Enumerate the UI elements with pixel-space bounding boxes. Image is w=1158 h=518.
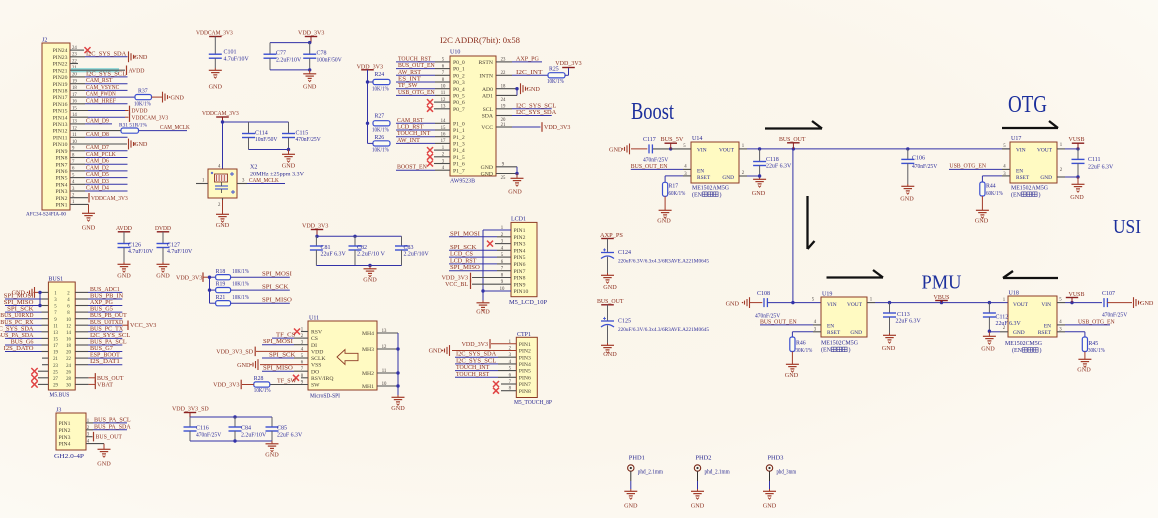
svg-text:GND: GND <box>752 190 766 197</box>
svg-text:CAM_D4: CAM_D4 <box>86 185 110 192</box>
svg-text:(EN: (EN <box>692 192 703 199</box>
svg-text:C111: C111 <box>1088 157 1101 163</box>
svg-text:C106: C106 <box>912 156 925 162</box>
svg-text:PIN23: PIN23 <box>53 55 68 61</box>
svg-text:4.7uF/10V: 4.7uF/10V <box>224 57 250 63</box>
svg-text:C127: C127 <box>167 242 180 248</box>
svg-text:26: 26 <box>66 370 71 375</box>
svg-text:GND: GND <box>1140 300 1154 307</box>
svg-text:2.2uF/10 V: 2.2uF/10 V <box>357 252 386 258</box>
svg-text:PIN9: PIN9 <box>55 149 67 155</box>
svg-text:C85: C85 <box>277 426 287 432</box>
svg-text:GND: GND <box>726 301 740 308</box>
svg-text:GND: GND <box>785 372 799 379</box>
svg-text:DO: DO <box>311 369 319 375</box>
svg-text:AD1: AD1 <box>482 94 493 100</box>
svg-text:10K/1%: 10K/1% <box>254 388 271 394</box>
svg-text:C84: C84 <box>241 426 251 432</box>
svg-text:USB_OTG_EN: USB_OTG_EN <box>949 163 986 170</box>
svg-text:RSET: RSET <box>1016 175 1030 181</box>
svg-text:20: 20 <box>66 351 71 356</box>
svg-text:EN: EN <box>697 168 704 174</box>
svg-text:PIN9: PIN9 <box>514 282 526 288</box>
svg-text:PHD1: PHD1 <box>629 456 645 462</box>
svg-text:SPI_MOSI: SPI_MOSI <box>262 271 292 278</box>
svg-text:GND: GND <box>117 273 131 280</box>
svg-text:PIN4: PIN4 <box>55 182 67 188</box>
svg-text:C78: C78 <box>317 50 327 56</box>
svg-text:27: 27 <box>53 377 58 382</box>
svg-text:PIN3: PIN3 <box>59 435 71 441</box>
svg-text:VDD_3V3: VDD_3V3 <box>462 341 488 348</box>
svg-text:I2C_SYS_SDA: I2C_SYS_SDA <box>86 50 127 57</box>
svg-text:I2S_DATO: I2S_DATO <box>4 345 34 352</box>
svg-text:25: 25 <box>501 176 506 181</box>
svg-text:GND: GND <box>975 218 989 225</box>
svg-text:60K/1%: 60K/1% <box>986 191 1003 197</box>
svg-text:VDDCAM_3V3: VDDCAM_3V3 <box>91 195 128 202</box>
svg-text:DVDD: DVDD <box>155 225 171 232</box>
svg-text:C115: C115 <box>296 131 309 137</box>
svg-text:MH2: MH2 <box>362 371 374 377</box>
svg-text:phd_3mm: phd_3mm <box>777 470 797 476</box>
svg-text:GND: GND <box>609 146 623 153</box>
svg-text:GND: GND <box>1077 367 1091 374</box>
svg-text:R26: R26 <box>375 135 385 141</box>
svg-text:470nF/25V: 470nF/25V <box>912 164 938 170</box>
svg-text:PIN7: PIN7 <box>514 269 526 275</box>
svg-text:BUS_OUT_EN: BUS_OUT_EN <box>760 318 797 325</box>
svg-text:Boost: Boost <box>631 99 674 125</box>
svg-text:U14: U14 <box>692 136 702 142</box>
svg-text:): ) <box>1040 347 1042 354</box>
svg-text:2.2uF/10V: 2.2uF/10V <box>404 252 430 258</box>
svg-text:PIN19: PIN19 <box>53 82 68 88</box>
svg-text:PIN5: PIN5 <box>55 176 67 182</box>
svg-text:2.2uF/10V: 2.2uF/10V <box>241 432 267 438</box>
svg-text:PIN24: PIN24 <box>53 48 68 54</box>
svg-text:10K/1%: 10K/1% <box>232 295 249 301</box>
svg-text:X2: X2 <box>250 164 257 170</box>
svg-text:BUS_5V: BUS_5V <box>661 136 684 143</box>
svg-text:GND: GND <box>508 189 522 196</box>
svg-text:GND: GND <box>265 452 279 459</box>
svg-text:SPI_MISO: SPI_MISO <box>262 297 292 304</box>
svg-text:GND: GND <box>1040 175 1052 181</box>
svg-text:VIN: VIN <box>1041 302 1051 308</box>
svg-text:VDDCAM_3V3: VDDCAM_3V3 <box>132 114 169 121</box>
svg-text:R45: R45 <box>1089 341 1099 347</box>
svg-text:22uF 6.3V: 22uF 6.3V <box>766 164 792 170</box>
svg-text:VIN: VIN <box>827 302 837 308</box>
svg-text:21: 21 <box>53 357 58 362</box>
svg-text:GND: GND <box>763 503 777 510</box>
svg-text:C117: C117 <box>643 137 656 143</box>
svg-text:EN: EN <box>827 323 834 329</box>
svg-text:AW9523B: AW9523B <box>450 179 475 185</box>
svg-text:VDD: VDD <box>311 350 323 356</box>
svg-text:R21: R21 <box>216 295 226 301</box>
svg-text:GND: GND <box>476 309 490 316</box>
svg-text:R19: R19 <box>216 282 226 288</box>
svg-text:M5_TOUCH_8P: M5_TOUCH_8P <box>514 400 552 406</box>
svg-text:): ) <box>720 192 722 199</box>
svg-text:I2S_DAT1: I2S_DAT1 <box>90 358 120 365</box>
svg-text:PMU: PMU <box>922 272 963 294</box>
svg-text:BOOST_EN: BOOST_EN <box>397 164 427 171</box>
svg-text:RSTN: RSTN <box>478 60 493 66</box>
svg-text:P1_5: P1_5 <box>453 155 465 161</box>
svg-text:PIN2: PIN2 <box>514 235 526 241</box>
svg-text:TF_SW: TF_SW <box>277 377 296 384</box>
svg-text:PIN11: PIN11 <box>53 135 68 141</box>
svg-text:GND: GND <box>624 503 638 510</box>
svg-text:GND: GND <box>429 348 443 355</box>
svg-text:GND: GND <box>82 225 96 232</box>
svg-text:PIN1: PIN1 <box>55 203 67 209</box>
svg-text:BUS_OUT: BUS_OUT <box>96 434 123 441</box>
svg-text:(EN: (EN <box>821 347 832 354</box>
svg-text:GND: GND <box>363 277 377 284</box>
svg-text:C124: C124 <box>618 250 631 256</box>
svg-text:phd_2.1mm: phd_2.1mm <box>705 470 730 476</box>
svg-text:2.2uF/10V: 2.2uF/10V <box>276 57 302 63</box>
svg-text:PIN4: PIN4 <box>59 442 71 448</box>
svg-text:PIN13: PIN13 <box>53 122 68 128</box>
svg-text:ME1502AM5G: ME1502AM5G <box>692 186 730 192</box>
svg-text:GND: GND <box>481 172 493 178</box>
svg-text:P0_3: P0_3 <box>453 80 465 86</box>
svg-text:C114: C114 <box>255 131 268 137</box>
svg-text:PIN18: PIN18 <box>53 89 68 95</box>
svg-text:PIN2: PIN2 <box>59 428 71 434</box>
svg-text:GND: GND <box>216 222 230 229</box>
svg-text:21: 21 <box>501 123 506 128</box>
svg-text:GND: GND <box>237 362 251 369</box>
svg-text:PIN12: PIN12 <box>53 129 68 135</box>
svg-text:GND: GND <box>156 273 170 280</box>
svg-text:16: 16 <box>66 338 71 343</box>
svg-text:R25: R25 <box>549 67 559 73</box>
svg-text:VDD_3V3: VDD_3V3 <box>176 274 202 281</box>
svg-text:PIN8: PIN8 <box>55 156 67 162</box>
svg-text:PIN1: PIN1 <box>514 228 526 234</box>
svg-text:EN: EN <box>1016 168 1023 174</box>
svg-text:AD0: AD0 <box>482 87 493 93</box>
svg-text:PIN6: PIN6 <box>55 169 67 175</box>
svg-text:GND: GND <box>171 94 185 101</box>
svg-text:GND: GND <box>1013 330 1025 336</box>
svg-text:P1_6: P1_6 <box>453 162 465 168</box>
svg-text:GND: GND <box>882 345 896 352</box>
svg-text:GH2.0-4P: GH2.0-4P <box>54 454 84 460</box>
svg-text:17: 17 <box>53 344 58 349</box>
svg-text:GND: GND <box>527 86 541 93</box>
svg-text:GND: GND <box>603 284 617 291</box>
svg-text:PIN1: PIN1 <box>519 342 531 348</box>
svg-text:14: 14 <box>66 331 71 336</box>
svg-text:23: 23 <box>53 364 58 369</box>
svg-text:(EN: (EN <box>1012 347 1023 354</box>
svg-text:M5.BUS: M5.BUS <box>49 393 69 399</box>
svg-text:GND: GND <box>209 84 223 91</box>
svg-text:10nF/50V: 10nF/50V <box>255 137 278 143</box>
svg-text:4.7uF/10V: 4.7uF/10V <box>128 249 154 255</box>
svg-text:22uF 6.3V: 22uF 6.3V <box>896 318 922 324</box>
svg-text:PIN6: PIN6 <box>514 262 526 268</box>
svg-text:RSV: RSV <box>311 330 323 336</box>
svg-text:P1_0: P1_0 <box>453 121 465 127</box>
svg-text:PIN10: PIN10 <box>53 142 68 148</box>
svg-text:C77: C77 <box>276 50 286 56</box>
svg-text:220uF/6.3V/6.3x4.3/6R3AVE.A221: 220uF/6.3V/6.3x4.3/6R3AVE.A221M0645 <box>618 259 709 265</box>
svg-text:INTN: INTN <box>479 73 493 79</box>
svg-text:C81: C81 <box>321 245 331 251</box>
svg-text:GND: GND <box>722 175 734 181</box>
svg-text:VOUT: VOUT <box>1013 302 1029 308</box>
svg-text:P0_7: P0_7 <box>453 107 465 113</box>
svg-text:30K/1%: 30K/1% <box>796 348 813 354</box>
svg-text:GND: GND <box>481 165 493 171</box>
svg-text:VOUT: VOUT <box>719 147 735 153</box>
svg-text:PIN3: PIN3 <box>514 242 526 248</box>
svg-text:30: 30 <box>66 384 71 389</box>
svg-text:C112: C112 <box>996 315 1009 321</box>
svg-text:GND: GND <box>691 503 705 510</box>
svg-text:SPI_MISO: SPI_MISO <box>263 365 293 372</box>
svg-text:GND: GND <box>981 346 995 353</box>
svg-text:PHD3: PHD3 <box>768 456 784 462</box>
svg-text:C107: C107 <box>1102 291 1115 297</box>
svg-text:MH4: MH4 <box>362 331 374 337</box>
svg-text:CAM_MCLK: CAM_MCLK <box>249 177 279 184</box>
svg-text:SPI_SCK: SPI_SCK <box>269 352 296 359</box>
svg-text:15: 15 <box>53 338 58 343</box>
svg-text:CAM_D9: CAM_D9 <box>86 117 109 124</box>
svg-text:BUS_PA_SDA: BUS_PA_SDA <box>94 423 131 430</box>
svg-text:GND: GND <box>603 351 617 358</box>
svg-text:30K/1%: 30K/1% <box>1088 348 1105 354</box>
svg-text:SCLK: SCLK <box>311 356 326 362</box>
svg-text:PIN7: PIN7 <box>519 382 531 388</box>
svg-text:BUS_OUT: BUS_OUT <box>779 136 806 143</box>
svg-text:11: 11 <box>53 324 58 329</box>
svg-text:VDD_3V3_SD: VDD_3V3_SD <box>172 406 209 413</box>
svg-text:PIN5: PIN5 <box>514 255 526 261</box>
svg-text:29: 29 <box>53 384 58 389</box>
svg-text:AXP_PG: AXP_PG <box>516 55 539 62</box>
svg-text:VUSB: VUSB <box>1069 136 1085 143</box>
svg-text:J2: J2 <box>42 38 47 44</box>
svg-text:AW_INT: AW_INT <box>397 137 420 144</box>
svg-text:VDD_3V3: VDD_3V3 <box>302 223 328 230</box>
svg-text:10K/1%: 10K/1% <box>372 86 389 92</box>
svg-text:BUS_OUT: BUS_OUT <box>597 298 624 305</box>
svg-text:GND: GND <box>97 461 111 468</box>
svg-text:GND: GND <box>134 54 148 61</box>
svg-text:): ) <box>849 347 851 354</box>
svg-text:PIN8: PIN8 <box>514 276 526 282</box>
svg-text:VDD_3V3: VDD_3V3 <box>544 124 570 131</box>
svg-text:GND: GND <box>657 218 671 225</box>
svg-text:MicroSD-SPI: MicroSD-SPI <box>310 394 340 400</box>
svg-text:OTG: OTG <box>1008 92 1047 118</box>
svg-text:GND: GND <box>1070 194 1084 201</box>
svg-text:P0_6: P0_6 <box>453 100 465 106</box>
svg-text:C101: C101 <box>224 50 237 56</box>
svg-text:24: 24 <box>66 364 71 369</box>
svg-text:I2C_SYS_SDA: I2C_SYS_SDA <box>516 109 557 116</box>
svg-text:AVDD: AVDD <box>129 67 145 74</box>
svg-text:U18: U18 <box>1009 291 1019 297</box>
svg-text:13: 13 <box>53 331 58 336</box>
svg-text:19: 19 <box>501 105 506 110</box>
svg-text:SPI_MISO: SPI_MISO <box>450 264 480 271</box>
svg-text:P0_2: P0_2 <box>453 73 465 79</box>
svg-text:GND: GND <box>282 163 296 170</box>
svg-text:PIN5: PIN5 <box>519 369 531 375</box>
svg-text:PIN3: PIN3 <box>519 355 531 361</box>
svg-text:C113: C113 <box>897 312 910 318</box>
svg-text:VBAT: VBAT <box>97 381 113 388</box>
svg-text:TOUCH_RST: TOUCH_RST <box>456 371 489 378</box>
svg-text:VDD_3V3: VDD_3V3 <box>298 30 324 37</box>
svg-text:PIN8: PIN8 <box>519 389 531 395</box>
svg-text:AFC34-S24FIA-00: AFC34-S24FIA-00 <box>26 212 66 218</box>
svg-text:USI: USI <box>1113 216 1141 238</box>
svg-text:GND: GND <box>303 84 317 91</box>
svg-text:CAM_HREF: CAM_HREF <box>86 97 116 104</box>
svg-text:AVDD: AVDD <box>116 225 132 232</box>
svg-text:VDD_3V3_SD: VDD_3V3_SD <box>216 348 253 355</box>
svg-text:SPI_MOSI: SPI_MOSI <box>450 230 480 237</box>
svg-text:C125: C125 <box>618 319 631 325</box>
svg-text:U17: U17 <box>1011 136 1021 142</box>
svg-text:RSET: RSET <box>827 330 841 336</box>
svg-text:ME1502CM5G: ME1502CM5G <box>821 341 859 347</box>
svg-text:P0_5: P0_5 <box>453 94 465 100</box>
svg-text:BUS_OUT_EN: BUS_OUT_EN <box>631 163 668 170</box>
svg-text:U19: U19 <box>822 292 832 298</box>
svg-text:phd_2.1mm: phd_2.1mm <box>638 470 663 476</box>
svg-text:PIN17: PIN17 <box>53 95 68 101</box>
svg-text:SDA: SDA <box>482 114 494 120</box>
svg-text:MH3: MH3 <box>362 347 374 353</box>
svg-text:10: 10 <box>66 318 71 323</box>
svg-text:VCC_BL: VCC_BL <box>445 281 468 288</box>
svg-text:GND: GND <box>134 141 148 148</box>
svg-text:SW: SW <box>311 383 320 389</box>
svg-text:GND: GND <box>900 196 914 203</box>
svg-text:23: 23 <box>501 58 506 63</box>
svg-text:VDD_3V3: VDD_3V3 <box>213 382 239 389</box>
svg-text:PIN20: PIN20 <box>53 75 68 81</box>
svg-text:19: 19 <box>53 351 58 356</box>
svg-text:R18: R18 <box>216 269 226 275</box>
svg-text:P1_7: P1_7 <box>453 168 465 174</box>
svg-text:60K/1%: 60K/1% <box>669 191 686 197</box>
svg-text:PIN10: PIN10 <box>514 289 529 295</box>
svg-text:R46: R46 <box>796 341 806 347</box>
svg-text:J3: J3 <box>56 408 61 414</box>
svg-text:P0_4: P0_4 <box>453 87 465 93</box>
svg-text:20MHz ±25ppm 3.3V: 20MHz ±25ppm 3.3V <box>250 171 304 177</box>
svg-text:DI: DI <box>311 343 317 349</box>
svg-text:CAM_MCLK: CAM_MCLK <box>160 124 190 131</box>
svg-text:22uF 6.3V: 22uF 6.3V <box>996 321 1022 327</box>
svg-text:U10: U10 <box>450 50 460 56</box>
svg-text:CAM_D8: CAM_D8 <box>86 131 109 138</box>
svg-text:28: 28 <box>66 377 71 382</box>
svg-text:VDD_3V3: VDD_3V3 <box>555 60 581 67</box>
svg-text:U11: U11 <box>309 316 319 322</box>
svg-text:PIN3: PIN3 <box>55 189 67 195</box>
svg-text:USB_OTG_EN: USB_OTG_EN <box>1078 318 1115 325</box>
svg-text:R17: R17 <box>669 184 679 190</box>
svg-text:24: 24 <box>501 98 506 103</box>
svg-text:RSET: RSET <box>697 175 711 181</box>
svg-text:R24: R24 <box>375 72 385 78</box>
svg-text:C82: C82 <box>357 245 367 251</box>
svg-text:VDDCAM_3V3: VDDCAM_3V3 <box>202 110 239 117</box>
svg-text:PIN2: PIN2 <box>519 349 531 355</box>
svg-text:10K/1%: 10K/1% <box>372 128 389 134</box>
svg-text:M5_LCD_10P: M5_LCD_10P <box>509 300 547 306</box>
svg-text:P1_2: P1_2 <box>453 135 465 141</box>
svg-text:22: 22 <box>501 71 506 76</box>
svg-text:ME1502CM5G: ME1502CM5G <box>1005 341 1043 347</box>
svg-text:470nF/25V: 470nF/25V <box>296 137 322 143</box>
svg-text:EN: EN <box>1044 323 1051 329</box>
svg-text:PIN14: PIN14 <box>53 115 68 121</box>
svg-text:10K/1%: 10K/1% <box>134 102 151 108</box>
svg-text:VSS: VSS <box>311 363 321 369</box>
svg-text:PIN1: PIN1 <box>59 421 71 427</box>
svg-text:C108: C108 <box>757 291 770 297</box>
svg-text:VDDCAM_3V3: VDDCAM_3V3 <box>196 30 233 37</box>
svg-text:RSV/IRQ: RSV/IRQ <box>311 376 334 382</box>
svg-text:P0_0: P0_0 <box>453 60 465 66</box>
svg-text:I2C_INT: I2C_INT <box>516 69 543 76</box>
svg-text:22uF 6.3V: 22uF 6.3V <box>277 432 303 438</box>
svg-text:VOUT: VOUT <box>1037 147 1053 153</box>
svg-text:C118: C118 <box>766 157 779 163</box>
svg-text:R37: R37 <box>138 89 148 95</box>
svg-text:4.7uF/10V: 4.7uF/10V <box>167 249 193 255</box>
svg-text:PIN4: PIN4 <box>514 248 526 254</box>
svg-text:): ) <box>1039 192 1041 199</box>
svg-text:BUS1: BUS1 <box>48 277 63 283</box>
svg-text:SCL: SCL <box>483 107 494 113</box>
svg-text:LCD1: LCD1 <box>511 217 526 223</box>
svg-text:C116: C116 <box>196 426 209 432</box>
svg-text:12: 12 <box>66 324 71 329</box>
svg-text:18: 18 <box>501 85 506 90</box>
svg-text:GND: GND <box>391 405 405 412</box>
svg-text:I2C ADDR(7bit): 0x58: I2C ADDR(7bit): 0x58 <box>440 36 520 45</box>
svg-text:MH1: MH1 <box>362 384 374 390</box>
svg-text:10K/1%: 10K/1% <box>232 282 249 288</box>
svg-text:VOUT: VOUT <box>847 302 863 308</box>
svg-text:10K/1%: 10K/1% <box>372 148 389 154</box>
svg-text:GND: GND <box>850 330 862 336</box>
svg-text:RSET: RSET <box>1038 330 1052 336</box>
svg-text:PHD2: PHD2 <box>696 456 712 462</box>
svg-text:CTP1: CTP1 <box>517 332 531 338</box>
svg-text:R31 51R/1%: R31 51R/1% <box>119 122 147 128</box>
svg-text:22uF 6.3V: 22uF 6.3V <box>321 252 347 258</box>
svg-text:470nF/25V: 470nF/25V <box>196 432 222 438</box>
